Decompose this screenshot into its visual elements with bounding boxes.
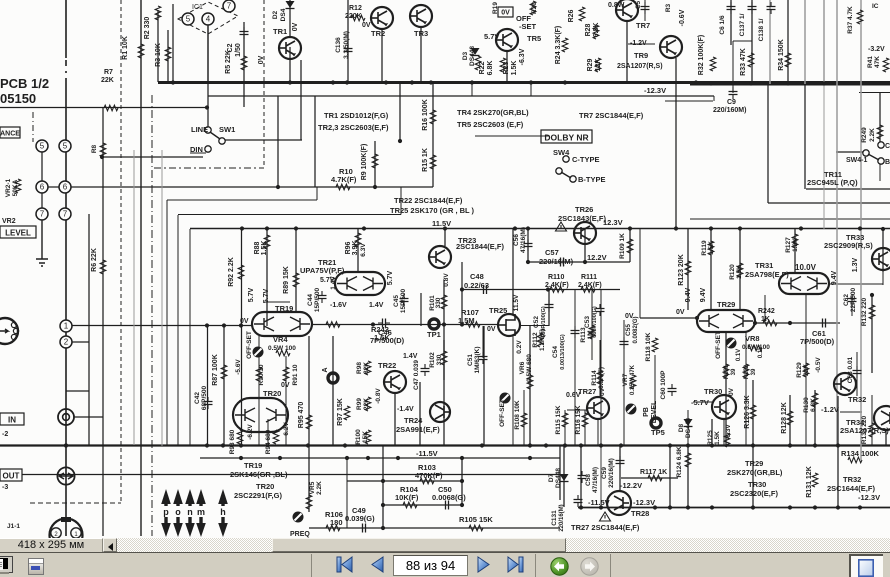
transistor TR30	[712, 395, 736, 419]
svg-text:0.1V: 0.1V	[758, 346, 764, 358]
svg-text:R116 15K: R116 15K	[575, 405, 582, 434]
svg-text:0V: 0V	[599, 387, 606, 396]
svg-text:-6.3V: -6.3V	[725, 424, 732, 440]
wire	[223, 326, 225, 446]
capacitor C56	[524, 239, 533, 251]
diode D3	[471, 48, 480, 55]
transistor TR3	[410, 5, 432, 27]
nav: prev page	[370, 556, 385, 573]
wire	[690, 218, 890, 220]
wire	[768, 202, 890, 204]
trimmer VR4	[253, 347, 264, 358]
wire	[787, 0, 789, 82]
resistor R9	[372, 154, 378, 168]
scrollbar left arrow	[103, 538, 117, 552]
wire	[871, 395, 873, 446]
svg-text:R41: R41	[867, 56, 874, 68]
capacitor C49	[358, 524, 370, 533]
capacitor C46	[378, 319, 390, 328]
svg-text:TR5 2SC2603 (E,F): TR5 2SC2603 (E,F)	[457, 120, 524, 129]
svg-text:220/160M): 220/160M)	[713, 107, 746, 114]
resistor VR5	[306, 495, 312, 509]
resistor R41	[883, 58, 889, 72]
resistor R133	[869, 423, 875, 437]
svg-text:C44: C44	[307, 294, 314, 306]
resistor R121	[723, 364, 729, 378]
wire	[885, 430, 887, 446]
wire	[285, 356, 287, 446]
wire	[461, 458, 463, 505]
svg-text:39: 39	[751, 368, 757, 375]
svg-text:-0.8V: -0.8V	[375, 388, 382, 404]
horizontal scrollbar	[0, 538, 890, 552]
wire	[161, 150, 163, 446]
wire	[177, 215, 179, 445]
wire	[559, 446, 561, 500]
resistor R97	[344, 406, 350, 420]
svg-text:R129: R129	[796, 362, 803, 378]
svg-text:VR5: VR5	[309, 481, 316, 494]
resistor R15	[430, 155, 436, 169]
svg-text:68P/500: 68P/500	[201, 386, 208, 411]
svg-text:o: o	[175, 507, 181, 517]
wire	[443, 280, 445, 380]
wire	[400, 187, 402, 215]
capacitor C136	[344, 44, 353, 56]
resistor R117	[648, 475, 662, 481]
svg-text:TR7: TR7	[636, 21, 650, 30]
svg-text:TR29: TR29	[717, 300, 735, 309]
svg-text:05150: 05150	[0, 91, 36, 106]
resistor VR2-1	[15, 179, 21, 193]
transistor TR1	[279, 37, 301, 59]
svg-text:1.5M: 1.5M	[458, 316, 475, 325]
resistor R8	[100, 143, 106, 157]
svg-text:0.0082(G): 0.0082(G)	[633, 316, 639, 343]
resistor R1	[138, 44, 144, 58]
svg-text:R88: R88	[254, 241, 261, 254]
svg-text:B-TYPE: B-TYPE	[578, 175, 606, 184]
svg-text:2SK146(GR ,BL): 2SK146(GR ,BL)	[230, 470, 288, 479]
transistor TR34	[874, 406, 890, 430]
svg-text:12.2V: 12.2V	[587, 253, 607, 262]
svg-text:-12.3V: -12.3V	[858, 493, 880, 502]
svg-text:C42: C42	[194, 392, 201, 404]
wire	[295, 229, 297, 312]
wire	[879, 93, 881, 145]
wire	[597, 420, 599, 446]
svg-text:OFF-SET: OFF-SET	[499, 399, 506, 427]
svg-text:-1.6V: -1.6V	[330, 302, 347, 309]
wire	[22, 474, 560, 476]
svg-text:C6 1/6: C6 1/6	[719, 15, 726, 35]
wire	[732, 41, 734, 82]
wire	[882, 270, 884, 285]
svg-text:12K: 12K	[595, 59, 602, 72]
wire	[483, 326, 485, 446]
IC U1 (IC1)	[178, 2, 238, 34]
wire	[462, 289, 620, 291]
jack REC OUT	[58, 409, 74, 425]
wire	[764, 295, 766, 323]
svg-text:R108 10K: R108 10K	[514, 400, 521, 430]
svg-text:-3.2V: -3.2V	[868, 46, 885, 53]
wire	[600, 289, 602, 445]
svg-text:1.4V: 1.4V	[403, 353, 418, 360]
resistor R105	[469, 525, 483, 531]
svg-text:220/16(M): 220/16(M)	[559, 504, 565, 531]
resistor R125	[724, 433, 730, 447]
resistor R118	[652, 338, 658, 352]
svg-text:C53: C53	[584, 316, 591, 328]
svg-text:5.7V: 5.7V	[248, 287, 255, 302]
nav: next page	[476, 556, 491, 573]
svg-text:TR24: TR24	[404, 416, 423, 425]
svg-text:TR19: TR19	[244, 461, 262, 470]
svg-text:C-TYPE: C-TYPE	[572, 155, 600, 164]
svg-text:TR32: TR32	[848, 395, 866, 404]
svg-text:p: p	[163, 507, 169, 517]
resistor R130	[812, 393, 818, 407]
resistor R123	[685, 261, 691, 275]
svg-text:R22: R22	[479, 61, 486, 74]
wire	[394, 393, 396, 446]
svg-text:TR22: TR22	[378, 361, 396, 370]
wire	[374, 141, 376, 187]
pin 5	[182, 13, 194, 25]
svg-text:R20: R20	[531, 2, 538, 14]
svg-text:0.6V: 0.6V	[566, 392, 581, 399]
svg-text:R122: R122	[744, 364, 750, 379]
resistor R107	[466, 322, 480, 328]
resistor R28	[593, 25, 599, 39]
svg-text:-2: -2	[2, 431, 8, 438]
wire	[208, 95, 714, 97]
svg-text:R120: R120	[729, 264, 736, 280]
wire	[563, 446, 565, 507]
svg-text:7P/500(D): 7P/500(D)	[370, 336, 405, 345]
svg-text:5.7V: 5.7V	[263, 288, 270, 303]
svg-text:-12.2V: -12.2V	[620, 481, 642, 490]
capacitor C51	[479, 352, 488, 364]
wire	[690, 84, 890, 86]
svg-text:TR30: TR30	[748, 480, 766, 489]
svg-text:SW4-1: SW4-1	[846, 157, 868, 164]
resistor R104	[403, 502, 417, 508]
svg-text:OFF-SET: OFF-SET	[246, 331, 253, 359]
svg-text:47/16(M): 47/16(M)	[520, 227, 527, 253]
diode D8	[684, 419, 693, 426]
connector J1-1	[50, 519, 83, 552]
svg-text:R34 150K: R34 150K	[778, 39, 785, 71]
wire	[665, 100, 713, 102]
svg-text:47K: 47K	[874, 56, 881, 68]
svg-text:9.4V: 9.4V	[685, 287, 692, 302]
wire	[243, 22, 245, 107]
svg-text:C52: C52	[533, 316, 540, 328]
resistor R29	[595, 58, 601, 72]
dual transistor TR21	[335, 272, 385, 295]
svg-text:1.5K: 1.5K	[261, 241, 268, 256]
resistor R249	[877, 125, 883, 139]
svg-text:R2 330: R2 330	[144, 17, 151, 40]
svg-text:R24 3.3K(F): R24 3.3K(F)	[555, 26, 562, 65]
resistor R10	[336, 184, 350, 190]
svg-text:-1.2V: -1.2V	[821, 405, 839, 414]
svg-text:0V: 0V	[362, 22, 371, 29]
svg-text:R3: R3	[665, 3, 672, 12]
svg-text:1M: 1M	[587, 330, 594, 339]
resistor R12	[351, 15, 365, 21]
wire	[225, 139, 302, 141]
wire	[263, 0, 265, 168]
svg-text:C63 0.01: C63 0.01	[847, 356, 854, 383]
resistor R122	[743, 364, 749, 378]
capacitor C48	[479, 285, 491, 294]
switch contact	[205, 146, 211, 152]
wire	[65, 0, 67, 536]
svg-text:D2: D2	[272, 10, 279, 19]
svg-text:TR32: TR32	[843, 475, 861, 484]
wire	[823, 0, 825, 84]
svg-text:h: h	[220, 507, 226, 517]
resistor R243	[326, 322, 340, 328]
pin 6	[59, 181, 71, 193]
svg-text:R26: R26	[568, 9, 575, 22]
svg-text:2SC2320(E,F): 2SC2320(E,F)	[730, 489, 778, 498]
wire	[300, 60, 302, 140]
resistor R108	[521, 413, 527, 427]
wire	[71, 325, 252, 327]
wire	[506, 52, 508, 82]
resistor R132	[869, 305, 875, 319]
wire	[461, 262, 463, 290]
wire	[752, 380, 754, 507]
svg-text:R121: R121	[724, 364, 730, 379]
switch SW1 lever	[210, 132, 220, 139]
resistor R101	[441, 295, 447, 309]
svg-text:TR7 2SC1844(E,F): TR7 2SC1844(E,F)	[579, 111, 644, 120]
capacitor C42	[204, 397, 213, 409]
svg-text:10K(F): 10K(F)	[395, 493, 419, 502]
svg-text:0.5W 100: 0.5W 100	[268, 345, 296, 352]
net marker p	[161, 489, 171, 537]
svg-text:4: 4	[206, 15, 211, 24]
svg-text:330: 330	[436, 354, 443, 365]
switch contact	[863, 150, 869, 156]
wire	[266, 301, 290, 303]
svg-text:C59: C59	[601, 467, 608, 479]
icon: monitor	[0, 556, 13, 573]
svg-text:R19: R19	[492, 2, 499, 14]
resistor R115	[562, 413, 568, 427]
resistor R128	[787, 411, 793, 425]
svg-text:0.5W 100: 0.5W 100	[742, 344, 770, 351]
wire	[102, 108, 104, 536]
svg-text:TR2,3 2SC2603(E,F): TR2,3 2SC2603(E,F)	[318, 123, 389, 132]
toolbar	[0, 552, 890, 577]
wire	[308, 336, 310, 446]
svg-text:2SC1843(E,F): 2SC1843(E,F)	[558, 214, 606, 223]
svg-text:50KA: 50KA	[12, 179, 19, 196]
resistor R109	[627, 239, 633, 253]
wire	[814, 390, 816, 446]
capacitor C2	[240, 27, 249, 39]
switch contact	[219, 138, 225, 144]
transistor TR9	[660, 36, 682, 58]
capacitor C63	[853, 366, 862, 378]
svg-text:0.0068(G): 0.0068(G)	[432, 493, 466, 502]
nav: last page	[507, 556, 524, 573]
wire	[190, 152, 206, 154]
svg-text:2SC2909(R,S): 2SC2909(R,S)	[824, 241, 873, 250]
svg-text:TP5: TP5	[651, 428, 665, 437]
wire	[879, 163, 881, 181]
wire	[461, 290, 463, 325]
wire	[713, 96, 715, 101]
wire	[312, 324, 497, 326]
svg-text:R112: R112	[532, 332, 539, 348]
wire	[733, 40, 752, 42]
resistor VR7	[630, 375, 636, 389]
resistor R32	[710, 57, 716, 71]
wire	[521, 325, 549, 327]
resistor R111	[581, 287, 595, 293]
capacitor C57	[556, 258, 568, 267]
trimmer VR6 offset	[500, 393, 511, 404]
svg-text:R105 15K: R105 15K	[459, 515, 493, 524]
svg-text:1.5K: 1.5K	[511, 61, 518, 76]
svg-text:2SC945L (P,Q): 2SC945L (P,Q)	[807, 178, 858, 187]
svg-text:TR2: TR2	[371, 29, 385, 38]
wire	[266, 229, 268, 326]
wire	[158, 81, 890, 84]
svg-text:TR5: TR5	[527, 34, 541, 43]
svg-text:1M/63(K): 1M/63(K)	[474, 346, 481, 373]
svg-text:7: 7	[227, 2, 232, 11]
svg-text:R7: R7	[104, 69, 113, 76]
svg-text:R102: R102	[429, 352, 436, 368]
wire	[207, 326, 209, 446]
wire	[471, 82, 473, 96]
wire	[580, 446, 582, 507]
svg-text:4.7K(F): 4.7K(F)	[331, 175, 357, 184]
wire	[382, 445, 384, 528]
svg-text:D8: D8	[678, 423, 685, 432]
resistor R110	[550, 287, 564, 293]
svg-text:6: 6	[40, 183, 45, 192]
wire	[241, 229, 243, 446]
wire	[732, 84, 734, 93]
svg-text:22P/500: 22P/500	[850, 288, 857, 313]
resistor VR6	[527, 375, 533, 389]
svg-text:C56: C56	[513, 234, 520, 246]
wire	[420, 293, 422, 326]
wire	[654, 355, 656, 418]
wire	[308, 446, 310, 512]
svg-text:R130: R130	[803, 397, 810, 413]
svg-text:1: 1	[64, 322, 69, 331]
svg-text:R124 6.8K: R124 6.8K	[676, 446, 683, 477]
pin 5	[36, 140, 48, 152]
svg-text:TR31: TR31	[755, 261, 773, 270]
svg-text:R131 12K: R131 12K	[806, 466, 813, 498]
svg-text:0V: 0V	[728, 387, 735, 396]
wire	[794, 229, 796, 273]
pin 7	[223, 0, 235, 12]
svg-text:3.3/50(M): 3.3/50(M)	[343, 31, 350, 59]
resistor R20	[530, 1, 536, 15]
wire	[723, 419, 725, 446]
wire	[859, 92, 890, 94]
svg-text:0.8V: 0.8V	[443, 273, 450, 287]
svg-text:R134 100K: R134 100K	[841, 449, 880, 458]
svg-text:1.3V: 1.3V	[852, 257, 859, 272]
capacitor C5	[641, 2, 650, 14]
svg-text:TR1: TR1	[273, 27, 287, 36]
wire	[383, 504, 462, 506]
svg-text:C9: C9	[727, 99, 736, 106]
capacitor C61	[818, 319, 830, 328]
wire	[725, 332, 727, 446]
warning mark	[556, 222, 567, 231]
transistor TR2	[371, 7, 393, 29]
wire	[769, 0, 771, 84]
test point TP1	[429, 319, 439, 329]
wire	[151, 95, 153, 536]
svg-text:R109 1K: R109 1K	[619, 233, 626, 259]
svg-text:R23: R23	[503, 61, 510, 74]
svg-text:DS448: DS448	[555, 468, 562, 488]
svg-text:11.5V: 11.5V	[432, 219, 451, 228]
pin 1	[60, 320, 72, 332]
svg-text:0.2V: 0.2V	[516, 340, 523, 354]
wire	[258, 336, 260, 446]
svg-text:TR30: TR30	[704, 387, 722, 396]
resistor R114	[597, 370, 603, 384]
wire	[840, 411, 862, 413]
resistor R23	[500, 58, 506, 72]
svg-text:R91 10: R91 10	[292, 364, 299, 385]
resistor R5	[241, 56, 247, 70]
svg-text:2.2K: 2.2K	[316, 481, 323, 495]
svg-text:DS448: DS448	[685, 418, 692, 438]
pin 6	[36, 181, 48, 193]
resistor R96	[355, 233, 361, 247]
svg-text:6.8K: 6.8K	[810, 398, 817, 412]
svg-text:R29: R29	[587, 58, 594, 71]
svg-text:LEVEL: LEVEL	[5, 229, 31, 238]
pin 7	[36, 208, 48, 220]
svg-text:IN: IN	[8, 416, 16, 425]
wire	[72, 341, 89, 343]
svg-text:0V: 0V	[487, 326, 496, 333]
svg-text:2.4K(F): 2.4K(F)	[545, 282, 569, 289]
wire	[710, 229, 712, 310]
wire	[120, 0, 122, 503]
wire	[584, 245, 586, 262]
resistor R22	[475, 56, 481, 70]
label box 0V	[498, 7, 513, 17]
svg-text:-0.5V: -0.5V	[815, 357, 822, 373]
wire	[523, 390, 525, 446]
wire	[167, 30, 169, 82]
label box IN	[0, 413, 24, 425]
status: page size	[0, 538, 103, 553]
wire	[189, 229, 191, 445]
wire	[669, 446, 671, 507]
svg-text:180: 180	[330, 518, 343, 527]
